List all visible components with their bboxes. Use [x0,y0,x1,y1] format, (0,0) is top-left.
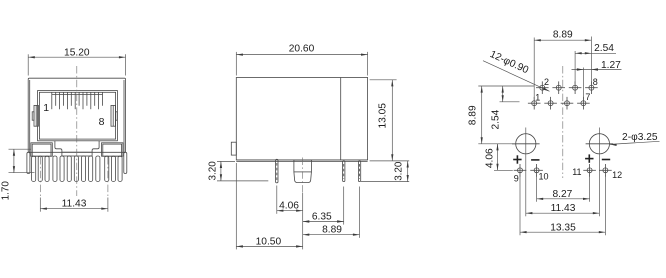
dimension 2.54 top [575,51,616,85]
svg-text:10.50: 10.50 [256,236,282,247]
pin 1 label [43,102,49,114]
polarity marks [513,154,610,163]
dimension 6.35 [303,187,344,225]
svg-text:2.54: 2.54 [594,43,614,54]
leader 2-phi3.25 [610,141,660,146]
svg-text:4.06: 4.06 [279,200,299,211]
right mounting block [102,143,123,156]
side view body [236,78,367,162]
front view centerline [76,66,78,196]
dimension 11.43 right [526,128,600,217]
svg-text:3.20: 3.20 [208,161,219,181]
svg-text:1: 1 [535,93,540,103]
hole pin labels [514,77,622,184]
svg-text:8.89: 8.89 [467,105,478,125]
dimension 8.27 [537,176,590,202]
side view pin A [276,159,278,183]
dimension 8.89 bottom [303,187,360,238]
dimension 4.06 [277,186,303,214]
svg-text:11: 11 [572,167,581,177]
dimension 13.35 [520,176,605,236]
svg-text:1: 1 [43,102,49,114]
dimension 11.43 [40,198,108,212]
locating post [294,160,312,183]
svg-text:1.70: 1.70 [0,181,11,201]
dimension 20.60 [236,52,367,76]
svg-text:1.27: 1.27 [601,60,621,71]
dimension 1.70 [9,149,35,173]
contact comb [52,92,103,109]
dimension 1.27 [572,68,622,100]
svg-text:15.20: 15.20 [64,47,90,58]
side view pin B [343,161,345,182]
svg-text:3.20: 3.20 [394,161,405,181]
svg-text:2.54: 2.54 [490,109,501,129]
dimension 2.54 left vertical [500,86,520,102]
footprint centerline [562,66,564,178]
right shield tab [124,152,127,173]
svg-text:20.60: 20.60 [289,43,315,54]
svg-text:10: 10 [538,171,548,181]
dimension 8.89 top [534,37,591,100]
svg-text:8.89: 8.89 [553,29,573,40]
svg-text:8.27: 8.27 [552,189,572,200]
svg-text:2-φ3.25: 2-φ3.25 [622,132,658,143]
svg-text:13.35: 13.35 [550,222,576,233]
holes 9-12 [514,164,612,177]
dimension 15.20 [28,54,125,75]
left shield tab [27,152,30,173]
front view contact pins comb [32,156,123,181]
dimension 3.20 left [217,161,268,181]
latch cutout [55,141,99,156]
post centerline [302,158,304,194]
svg-text:2: 2 [544,77,549,87]
svg-text:11.43: 11.43 [551,203,576,214]
svg-text:13.05: 13.05 [377,103,388,129]
leader 12-phi0.90 [483,61,550,92]
left mounting block [31,143,52,156]
left latch window [32,105,38,126]
dimension 10.50 [236,163,302,249]
svg-text:12: 12 [612,170,622,180]
svg-text:8: 8 [593,77,598,87]
svg-text:6.35: 6.35 [312,212,332,223]
outer pin centerlines [40,157,108,197]
svg-text:4.06: 4.06 [485,148,496,168]
side view shield tab [231,142,236,155]
holes row even pins 2-8 [536,81,598,94]
svg-text:9: 9 [514,174,519,184]
holes row odd pins 1-7 [528,97,590,110]
pin 8 label [99,116,105,128]
right latch window [111,105,117,126]
side view pin C [358,161,360,182]
dimension 13.05 [370,80,397,161]
dimension 4.06 left vertical [494,144,513,171]
dimension 3.20 right [361,161,409,182]
svg-text:8: 8 [99,116,105,128]
svg-text:11.43: 11.43 [62,198,87,209]
mounting hole left [512,134,540,154]
front view outer shield box [28,78,125,152]
front view port opening frame [38,91,118,141]
dimension 8.89 left vertical [478,86,534,144]
mounting hole right [586,134,614,154]
svg-text:8.89: 8.89 [322,225,342,236]
svg-text:7: 7 [585,92,590,102]
